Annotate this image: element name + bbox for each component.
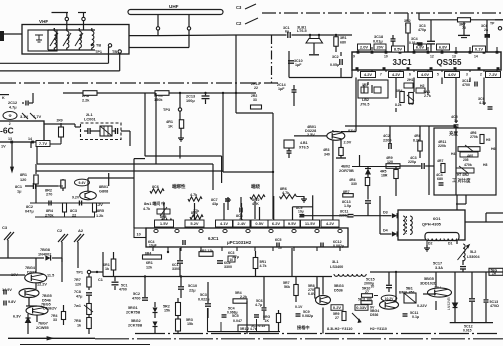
svg-text:XT6.5: XT6.5 (299, 146, 309, 150)
svg-text:10μ: 10μ (298, 210, 304, 214)
svg-text:D536: D536 (370, 313, 378, 317)
svg-text:LS3400: LS3400 (330, 265, 343, 269)
svg-text:0.1μ: 0.1μ (412, 315, 419, 319)
svg-text:18R: 18R (381, 174, 388, 178)
svg-text:270k: 270k (470, 135, 478, 139)
svg-text:43μ: 43μ (212, 202, 218, 206)
svg-text:3C2: 3C2 (332, 55, 339, 59)
svg-text:33: 33 (253, 98, 257, 102)
svg-text:LT6.5: LT6.5 (297, 29, 307, 33)
svg-text:4R3: 4R3 (323, 148, 329, 152)
svg-text:2CK78B: 2CK78B (128, 324, 142, 328)
svg-text:6: 6 (409, 73, 411, 77)
svg-text:8.3LH2~Y3110: 8.3LH2~Y3110 (327, 327, 352, 331)
svg-text:TP: TP (490, 22, 495, 26)
svg-text:6O1: 6O1 (433, 216, 441, 221)
svg-text:5BG2: 5BG2 (131, 319, 141, 323)
svg-text:LB2: LB2 (362, 98, 369, 102)
svg-text:1.2k: 1.2k (96, 214, 104, 218)
svg-text:4C2: 4C2 (383, 134, 390, 138)
svg-text:H8: H8 (483, 163, 487, 167)
svg-text:13: 13 (452, 55, 456, 59)
svg-text:0.1V: 0.1V (475, 47, 484, 52)
svg-text:2: 2 (9, 122, 11, 126)
svg-text:10: 10 (371, 285, 375, 289)
svg-text:端绕: 端绕 (251, 183, 260, 190)
svg-text:4.2V: 4.2V (392, 72, 401, 77)
svg-text:14: 14 (474, 55, 478, 59)
svg-text:5L2: 5L2 (470, 250, 476, 254)
svg-text:3300: 3300 (172, 267, 180, 271)
svg-text:470μ: 470μ (418, 28, 426, 32)
svg-text:TP3: TP3 (163, 108, 170, 112)
svg-text:C1: C1 (98, 278, 103, 282)
svg-text:47μ: 47μ (76, 295, 83, 299)
svg-text:1.5V: 1.5V (160, 221, 169, 226)
svg-text:8.2k: 8.2k (395, 103, 402, 107)
svg-text:7w1: 7w1 (74, 304, 81, 308)
svg-text:27: 27 (335, 316, 339, 320)
svg-text:33: 33 (53, 318, 57, 322)
svg-text:10: 10 (384, 55, 388, 59)
svg-text:7: 7 (380, 73, 382, 77)
svg-text:4.0V: 4.0V (448, 72, 457, 77)
svg-text:11.5V: 11.5V (305, 221, 316, 226)
svg-text:2.0V: 2.0V (360, 45, 369, 50)
svg-text:6.2V: 6.2V (272, 221, 281, 226)
svg-text:7R7: 7R7 (74, 278, 81, 282)
svg-text:3.3A: 3.3A (435, 266, 443, 270)
svg-text:H3: H3 (409, 102, 413, 106)
svg-text:8C6: 8C6 (152, 185, 159, 189)
svg-text:7BG8: 7BG8 (40, 248, 50, 252)
svg-text:5.2V: 5.2V (190, 221, 199, 226)
svg-text:2H1: 2H1 (407, 78, 413, 82)
svg-text:4.7μ: 4.7μ (9, 106, 17, 110)
svg-text:2.0V: 2.0V (344, 141, 352, 145)
svg-text:2OR75B: 2OR75B (339, 169, 354, 173)
svg-text:4.1V: 4.1V (220, 221, 229, 226)
svg-text:TP1: TP1 (95, 50, 102, 54)
svg-text:6.8V: 6.8V (439, 45, 448, 50)
svg-text:5C17: 5C17 (433, 262, 442, 266)
svg-text:7BG4: 7BG4 (25, 266, 36, 270)
svg-text:10: 10 (230, 258, 234, 262)
svg-text:047μ: 047μ (25, 210, 34, 214)
svg-text:5BG3: 5BG3 (334, 284, 344, 288)
svg-text:4700: 4700 (132, 297, 140, 301)
svg-text:4R1: 4R1 (166, 120, 173, 124)
svg-text:H7 4W2: H7 4W2 (457, 173, 469, 177)
svg-text:56k: 56k (284, 285, 290, 289)
svg-text:2V: 2V (52, 307, 57, 311)
svg-text:120: 120 (20, 178, 26, 182)
svg-text:D536: D536 (334, 289, 343, 293)
svg-text:22μ: 22μ (189, 289, 196, 293)
svg-text:4.7μ: 4.7μ (255, 303, 262, 307)
svg-text:接格中: 接格中 (297, 324, 310, 331)
svg-text:VHF: VHF (39, 19, 48, 24)
svg-text:1K: 1K (168, 125, 173, 129)
svg-text:0.015: 0.015 (463, 328, 472, 332)
svg-text:9: 9 (353, 55, 355, 59)
svg-text:0.22V: 0.22V (417, 304, 427, 308)
svg-text:470k: 470k (464, 163, 472, 167)
svg-text:5C8 0.15: 5C8 0.15 (251, 324, 265, 328)
svg-text:22: 22 (254, 86, 258, 90)
svg-text:8R5: 8R5 (97, 209, 104, 213)
svg-text:2.4V: 2.4V (237, 221, 246, 226)
svg-text:8R1: 8R1 (20, 173, 27, 177)
svg-text:3R3: 3R3 (362, 83, 368, 87)
svg-text:4.2V: 4.2V (364, 72, 373, 77)
svg-text:5RG1: 5RG1 (128, 306, 138, 310)
svg-text:220k: 220k (438, 144, 446, 148)
svg-text:6.8V: 6.8V (308, 292, 316, 296)
svg-text:7BG5: 7BG5 (42, 294, 52, 298)
svg-text:15k: 15k (164, 309, 171, 313)
svg-text:C3: C3 (2, 225, 8, 230)
svg-text:12.2V: 12.2V (37, 283, 47, 287)
svg-text:100μ: 100μ (186, 99, 195, 103)
svg-text:H5: H5 (486, 138, 490, 142)
svg-text:0.082μ: 0.082μ (302, 314, 313, 318)
svg-text:2C12: 2C12 (8, 101, 17, 105)
svg-text:2CW55: 2CW55 (36, 326, 49, 330)
svg-text:7.7V: 7.7V (33, 114, 42, 119)
svg-text:9.5V: 9.5V (288, 221, 297, 226)
svg-text:4.2V: 4.2V (326, 221, 335, 226)
svg-text:10: 10 (137, 233, 141, 237)
svg-text:UHF: UHF (169, 4, 179, 9)
svg-text:2R9: 2R9 (57, 119, 63, 123)
svg-text:6C5: 6C5 (275, 238, 281, 242)
svg-text:H6: H6 (491, 147, 496, 151)
svg-text:270: 270 (46, 193, 52, 197)
svg-text:4700: 4700 (119, 288, 127, 292)
svg-text:340: 340 (324, 153, 330, 157)
svg-text:5BG5: 5BG5 (424, 277, 434, 281)
svg-text:3R1: 3R1 (340, 36, 347, 40)
svg-text:11.5: 11.5 (47, 274, 54, 278)
svg-text:8B01: 8B01 (99, 185, 108, 189)
svg-text:8w1 端问 中: 8w1 端问 中 (144, 201, 165, 206)
svg-text:7.7V: 7.7V (39, 141, 48, 146)
svg-text:14: 14 (28, 137, 32, 141)
svg-text:0.5V: 0.5V (255, 221, 264, 226)
svg-text:2: 2 (480, 73, 482, 77)
svg-text:工 对比度: 工 对比度 (452, 177, 471, 184)
svg-text:12: 12 (430, 55, 434, 59)
svg-text:1K: 1K (265, 319, 270, 323)
svg-text:1N4002: 1N4002 (38, 253, 51, 257)
svg-text:9.4V: 9.4V (79, 181, 87, 185)
svg-text:680: 680 (437, 177, 443, 181)
svg-text:JT6.5: JT6.5 (360, 103, 369, 107)
svg-text:4.3μ: 4.3μ (479, 101, 486, 105)
svg-text:D3: D3 (383, 211, 388, 215)
svg-text:6R1: 6R1 (146, 261, 153, 265)
svg-text:205: 205 (463, 158, 469, 162)
svg-text:70: 70 (462, 26, 466, 30)
svg-text:10: 10 (278, 246, 282, 250)
svg-text:12k: 12k (146, 266, 153, 270)
svg-text:7R8: 7R8 (74, 319, 81, 323)
svg-text:8C1: 8C1 (15, 185, 22, 189)
svg-text:0.01μ: 0.01μ (373, 40, 383, 44)
svg-text:K: K (2, 96, 5, 100)
svg-text:1V: 1V (1, 145, 6, 149)
svg-text:L53004: L53004 (467, 255, 480, 259)
svg-text:C3: C3 (236, 5, 242, 10)
svg-text:G808: G808 (99, 190, 108, 194)
svg-text:8C3: 8C3 (70, 209, 77, 213)
svg-text:3C18: 3C18 (374, 35, 383, 39)
svg-text:A2: A2 (78, 228, 84, 233)
svg-text:0.01μ: 0.01μ (409, 41, 418, 45)
svg-text:4.7k: 4.7k (143, 207, 151, 211)
svg-text:QS355: QS355 (437, 58, 462, 67)
svg-text:7.2V: 7.2V (489, 72, 498, 77)
svg-text:0.047: 0.047 (233, 319, 242, 323)
svg-text:330: 330 (351, 182, 357, 186)
svg-text:5: 5 (437, 73, 439, 77)
svg-text:0.33V: 0.33V (356, 305, 367, 310)
svg-text:1μF: 1μF (278, 87, 285, 91)
svg-text:3JC1: 3JC1 (392, 58, 412, 67)
svg-text:470Ω: 470Ω (490, 304, 499, 308)
svg-text:8R4: 8R4 (46, 209, 54, 213)
svg-text:2.2k: 2.2k (82, 99, 90, 103)
svg-text:120: 120 (75, 283, 81, 287)
svg-text:LC001: LC001 (84, 117, 97, 122)
svg-text:QPH-4305: QPH-4305 (422, 222, 442, 227)
svg-text:H2~Y3110: H2~Y3110 (370, 327, 387, 331)
svg-text:C2: C2 (236, 21, 242, 26)
svg-text:D1: D1 (448, 242, 453, 246)
svg-text:5C2: 5C2 (133, 292, 140, 296)
svg-text:4.B1: 4.B1 (300, 141, 308, 145)
svg-text:C2: C2 (57, 228, 63, 233)
svg-text:5C3: 5C3 (200, 293, 207, 297)
svg-text:μPC1031H2: μPC1031H2 (227, 240, 252, 245)
svg-text:6R4: 6R4 (145, 252, 151, 256)
svg-text:3300: 3300 (224, 265, 232, 269)
svg-text:4700: 4700 (462, 83, 470, 87)
svg-text:TB: TB (96, 44, 101, 48)
svg-text:220μ: 220μ (408, 160, 416, 164)
svg-text:D2: D2 (428, 242, 433, 246)
svg-text:4.7k: 4.7k (260, 264, 267, 268)
svg-text:4.0V: 4.0V (421, 72, 430, 77)
svg-text:7BG7: 7BG7 (38, 322, 48, 326)
svg-text:0.05μ: 0.05μ (330, 63, 339, 67)
svg-text:7C8: 7C8 (74, 290, 81, 294)
svg-text:-6C: -6C (0, 126, 14, 136)
svg-text:5C10: 5C10 (188, 284, 197, 288)
svg-text:6R2 12k: 6R2 12k (200, 249, 213, 253)
svg-text:6JC1: 6JC1 (208, 236, 219, 241)
svg-text:0.082μ: 0.082μ (333, 244, 344, 248)
svg-text:2C13: 2C13 (186, 95, 195, 99)
svg-text:13: 13 (8, 137, 12, 141)
svg-text:8C2: 8C2 (26, 205, 33, 209)
svg-text:9.2V: 9.2V (72, 196, 80, 200)
svg-text:15k: 15k (187, 322, 194, 326)
svg-text:3: 3 (466, 73, 468, 77)
svg-text:5C5: 5C5 (232, 314, 239, 318)
svg-text:2CR75B: 2CR75B (126, 311, 140, 315)
svg-text:0.1V: 0.1V (295, 305, 303, 309)
svg-text:D536: D536 (43, 307, 52, 311)
svg-text:Φ: Φ (9, 114, 12, 118)
svg-text:端绑性: 端绑性 (172, 183, 186, 190)
svg-text:8.5V: 8.5V (394, 47, 403, 52)
svg-text:8R8: 8R8 (160, 215, 166, 219)
svg-text:1μF: 1μF (295, 63, 302, 67)
svg-text:充度: 充度 (449, 130, 458, 137)
svg-text:0.2V: 0.2V (333, 305, 342, 310)
svg-text:H2: H2 (420, 84, 425, 88)
svg-text:1μ: 1μ (17, 190, 22, 194)
svg-text:3L1: 3L1 (332, 260, 339, 264)
svg-text:10μF: 10μF (149, 244, 157, 248)
svg-text:TP1: TP1 (76, 271, 83, 275)
svg-text:H4: H4 (451, 152, 455, 156)
svg-text:9.8V: 9.8V (8, 300, 16, 304)
svg-text:6.3V: 6.3V (13, 315, 21, 319)
svg-text:1.0μ: 1.0μ (344, 204, 351, 208)
svg-text:TB: TB (112, 50, 117, 54)
svg-text:680: 680 (340, 41, 346, 45)
svg-text:LN52VB: LN52VB (447, 297, 451, 310)
svg-text:20V: 20V (376, 45, 383, 50)
svg-text:4W1: 4W1 (467, 154, 474, 158)
svg-text:3DD102D: 3DD102D (420, 282, 437, 286)
